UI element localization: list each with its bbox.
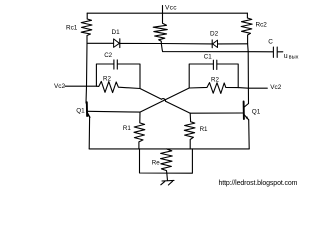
wire cross-coupling diagonal A (left rect to right base) [140, 89, 162, 100]
wire right collector vertical [247, 44, 250, 104]
svg-text:http://ledrost.blogspot.com: http://ledrost.blogspot.com [219, 180, 298, 187]
ground [166, 173, 169, 181]
transistor Q1 left [86, 102, 88, 116]
capacitor C2 block: left rect [96, 64, 113, 86]
wire Vc2 right stub [238, 87, 267, 90]
wire left collector vertical [86, 43, 87, 103]
svg-text:Q1: Q1 [76, 107, 85, 114]
node Vcc [162, 6, 164, 21]
wire right base [190, 112, 243, 114]
svg-text:Vc2: Vc2 [270, 84, 281, 91]
resistor Re [161, 149, 173, 173]
svg-text:R1: R1 [123, 125, 131, 132]
wire bus right (center node to Rc2) with D2 [161, 43, 212, 45]
svg-text:R2: R2 [103, 76, 111, 83]
svg-text:D1: D1 [112, 29, 121, 36]
resistor Rc1 [81, 13, 92, 43]
svg-text:R2: R2 [211, 77, 219, 84]
resistor middle (freehand, unlabeled) [153, 20, 167, 44]
wire cross-coupling diagonal B (right rect to left base) [140, 88, 189, 112]
svg-text:Rc1: Rc1 [66, 25, 78, 32]
svg-text:вых: вых [289, 55, 299, 61]
svg-text:Q1: Q1 [252, 109, 261, 116]
resistor R1 right [184, 113, 195, 149]
svg-text:R1: R1 [200, 126, 208, 133]
capacitor C (output) [248, 51, 273, 53]
wire left base [88, 110, 140, 113]
resistor Rc2 [241, 13, 252, 44]
transistor Q1 right [243, 102, 245, 120]
resistor R2 left [96, 81, 140, 92]
svg-text:C2: C2 [104, 52, 112, 59]
wire top supply rail [87, 12, 247, 14]
resistor R2 right [189, 83, 238, 94]
svg-text:u: u [284, 53, 288, 60]
resistor R1 left [134, 112, 145, 149]
capacitor C1 block: right rect [189, 64, 213, 88]
wire Re parallel box [140, 149, 193, 173]
svg-text:Rc2: Rc2 [256, 21, 268, 28]
svg-text:Re: Re [152, 159, 160, 166]
wire bottom emitter rail [89, 148, 249, 150]
diode D1 [114, 39, 120, 48]
svg-text:D2: D2 [210, 30, 219, 37]
svg-text:Vcc: Vcc [165, 5, 177, 12]
wire bus left (collector Rc1 to center node) [87, 42, 114, 44]
wire center node drop to output line [161, 44, 248, 52]
svg-text:C1: C1 [204, 53, 212, 60]
svg-text:C: C [268, 38, 273, 45]
node Vc2 left [65, 85, 96, 87]
svg-text:Vc2: Vc2 [54, 83, 65, 90]
diode D2 [211, 40, 213, 48]
